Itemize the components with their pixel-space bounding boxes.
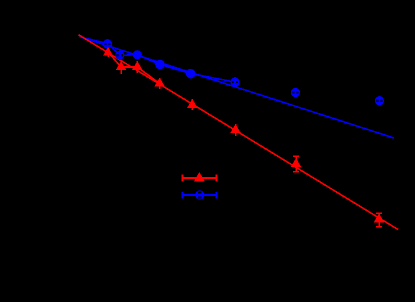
triangle R2 (116, 61, 126, 70)
errorbar R8 (376, 213, 382, 226)
triangle R7 (291, 158, 301, 167)
red fit line (79, 35, 399, 230)
legend blue errorbar sample (182, 192, 216, 199)
circle B3 (133, 50, 142, 59)
triangle R6 (230, 124, 240, 133)
errorbar B6 (234, 77, 236, 88)
errorbar B2 (119, 51, 121, 61)
errorbar R5 (191, 99, 193, 110)
triangle R4 (154, 78, 164, 87)
triangle R5 (187, 99, 197, 108)
errorbar R2 (120, 60, 122, 74)
legend red errorbar sample (182, 175, 216, 182)
circle B8 (375, 96, 384, 105)
errorbar B8 (378, 96, 380, 106)
errorbar R1 (107, 48, 109, 57)
errorbar B1 (107, 39, 109, 49)
circle B1 (103, 39, 112, 48)
blue data polyline (80, 37, 235, 82)
triangle R1 (103, 47, 113, 55)
errorbar R7 (293, 156, 299, 172)
legend blue circle (195, 190, 204, 199)
errorbar R4 (159, 78, 161, 89)
circle B2 (115, 51, 124, 60)
triangle R8 (374, 213, 384, 222)
blue fit line (79, 37, 394, 139)
red data connector (108, 52, 160, 84)
errorbar R3 (136, 61, 138, 73)
circle B5 (186, 69, 196, 79)
triangle R3 (132, 61, 142, 70)
circle B6 (231, 78, 240, 87)
errorbar R6 (235, 124, 237, 136)
circle B7 (291, 88, 300, 97)
circle B4 (155, 60, 165, 70)
errorbar B7 (294, 88, 296, 97)
legend red triangle (194, 172, 205, 181)
